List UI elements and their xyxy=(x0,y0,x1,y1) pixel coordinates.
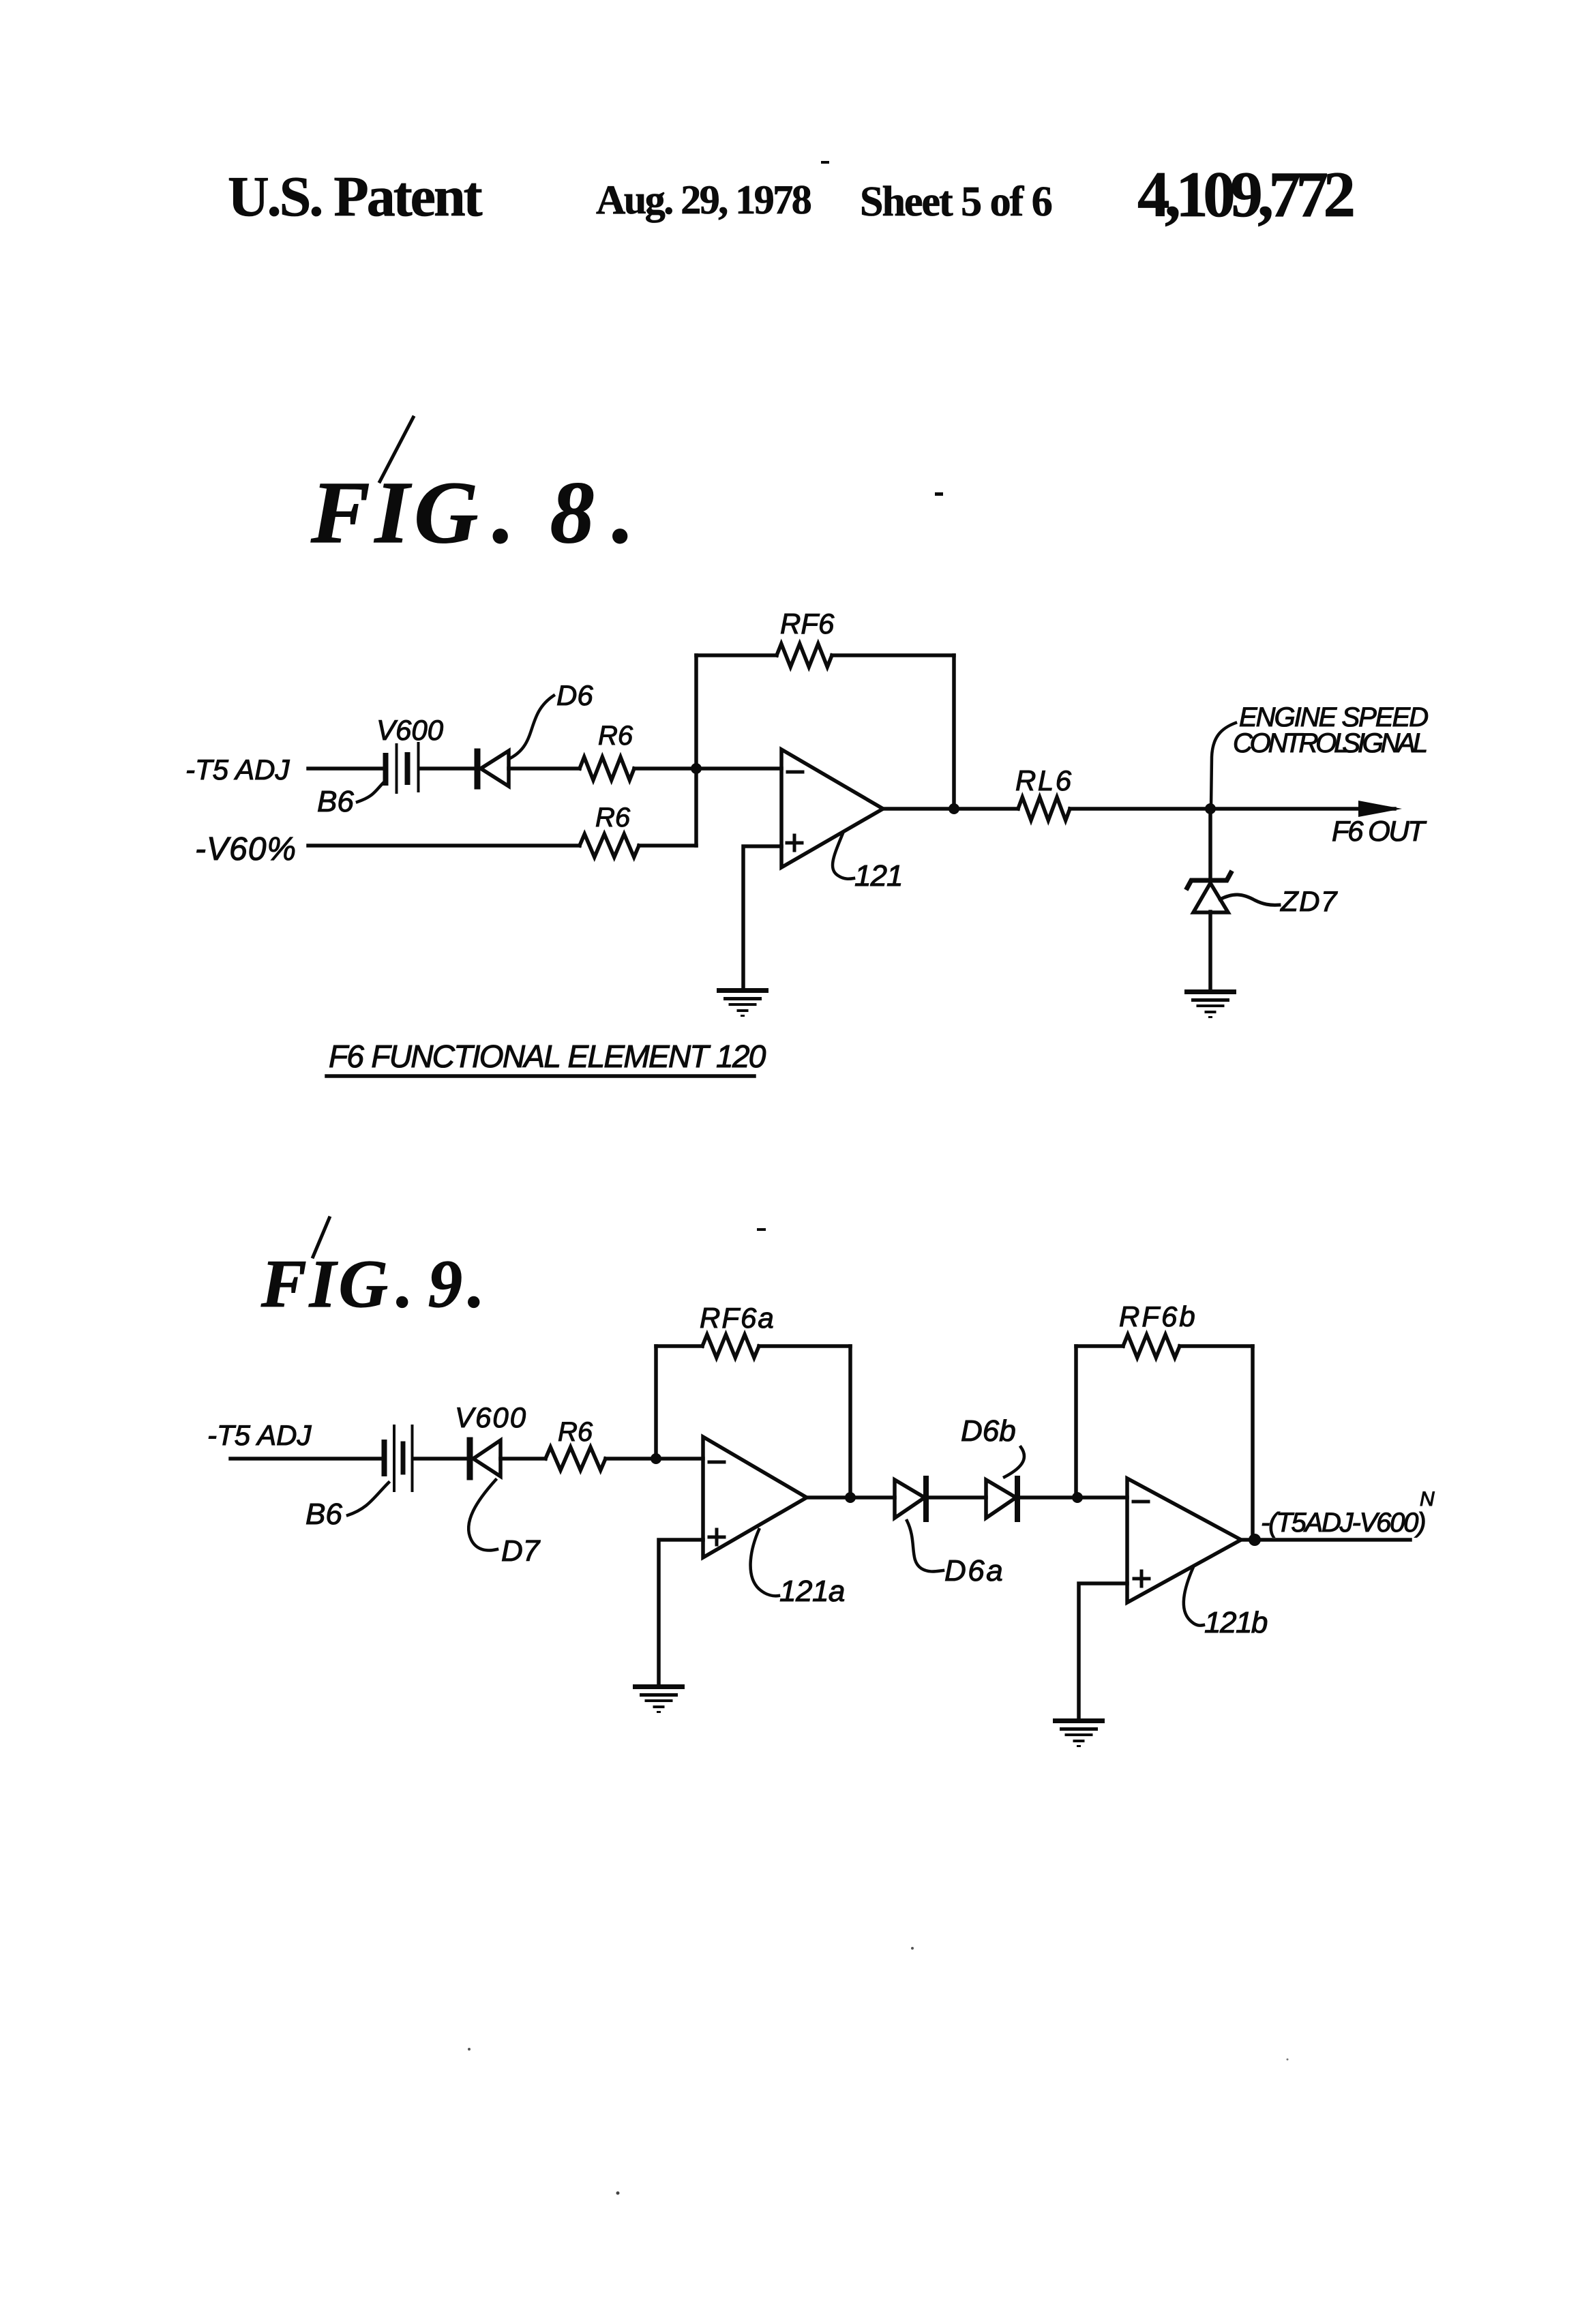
svg-text:RF6a: RF6a xyxy=(700,1302,775,1334)
svg-text:Aug. 29, 1978: Aug. 29, 1978 xyxy=(596,177,811,222)
svg-text:U.S. Patent: U.S. Patent xyxy=(228,165,483,228)
svg-text:CONTROL SIGNAL: CONTROL SIGNAL xyxy=(1233,728,1427,758)
svg-text:RF6: RF6 xyxy=(780,608,835,640)
svg-text:R6: R6 xyxy=(595,803,631,833)
svg-text:-T5 ADJ: -T5 ADJ xyxy=(207,1419,312,1451)
svg-text:-T5 ADJ: -T5 ADJ xyxy=(185,754,290,786)
svg-text:D7: D7 xyxy=(501,1534,541,1568)
svg-text:B6: B6 xyxy=(317,785,354,818)
svg-text:Sheet 5 of 6: Sheet 5 of 6 xyxy=(860,179,1052,225)
svg-text:B6: B6 xyxy=(305,1498,342,1531)
svg-text:D6: D6 xyxy=(556,679,593,711)
svg-text:R6: R6 xyxy=(558,1417,593,1447)
svg-text:RL6: RL6 xyxy=(1015,764,1073,796)
svg-text:V600: V600 xyxy=(376,714,444,746)
svg-text:V600: V600 xyxy=(455,1401,527,1433)
svg-text:N: N xyxy=(1420,1488,1435,1510)
svg-text:4,109,772: 4,109,772 xyxy=(1137,158,1354,230)
svg-text:D6b: D6b xyxy=(961,1414,1016,1448)
svg-text:FIG.9.: FIG.9. xyxy=(260,1246,485,1322)
svg-text:RF6b: RF6b xyxy=(1119,1300,1197,1332)
svg-text:-V60%: -V60% xyxy=(195,831,297,867)
svg-text:121: 121 xyxy=(854,859,902,893)
svg-text:R6: R6 xyxy=(598,721,633,751)
svg-text:-(T5ADJ-V600): -(T5ADJ-V600) xyxy=(1261,1508,1424,1538)
svg-text:F6 OUT: F6 OUT xyxy=(1332,815,1427,847)
svg-text:121a: 121a xyxy=(779,1575,845,1608)
svg-text:FIG.8.: FIG.8. xyxy=(310,464,634,562)
svg-text:ZD7: ZD7 xyxy=(1280,885,1338,917)
svg-text:F6 FUNCTIONAL ELEMENT 120: F6 FUNCTIONAL ELEMENT 120 xyxy=(329,1039,766,1074)
svg-text:D6a: D6a xyxy=(944,1554,1004,1588)
svg-text:121b: 121b xyxy=(1204,1606,1268,1639)
